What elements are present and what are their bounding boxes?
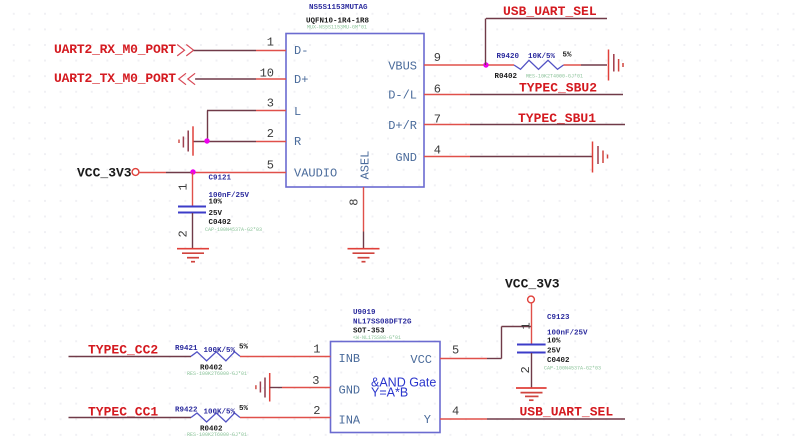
svg-text:25V: 25V [547, 348, 561, 356]
svg-text:3: 3 [312, 374, 319, 388]
wire TYPEC_CC2 to resistor [69, 356, 192, 358]
svg-text:5%: 5% [563, 52, 573, 60]
svg-text:5%: 5% [239, 405, 249, 413]
svg-text:Y=A*B: Y=A*B [371, 386, 408, 400]
svg-text:25V: 25V [209, 210, 223, 218]
junction dot USB_UART_SEL [483, 62, 488, 67]
svg-text:UART2_TX_M0_PORT: UART2_TX_M0_PORT [54, 71, 176, 86]
svg-text:C9123: C9123 [547, 314, 570, 322]
mux IC U1 body [286, 34, 424, 188]
svg-text:TYPEC_SBU1: TYPEC_SBU1 [518, 111, 596, 126]
svg-text:VCC_3V3: VCC_3V3 [505, 277, 560, 292]
svg-text:CAP-100N4537A-G2*03: CAP-100N4537A-G2*03 [544, 366, 601, 372]
off-page chevron << for UART2_TX [179, 73, 195, 84]
svg-text:INB: INB [339, 352, 361, 366]
svg-text:8: 8 [348, 199, 362, 206]
wire vertical to USB_UART_SEL [485, 19, 487, 66]
wire pin3 horizontal [207, 110, 256, 112]
junction dot at L/R ground node [204, 138, 209, 143]
svg-text:1: 1 [520, 322, 534, 329]
pin 4 stub [424, 156, 470, 158]
power symbol circle VCC_3V3 (bottom) [528, 296, 535, 303]
svg-text:4: 4 [434, 144, 441, 158]
svg-text:R9422: R9422 [175, 407, 198, 415]
pin 6 stub [424, 94, 470, 96]
svg-text:U9019: U9019 [353, 309, 376, 317]
junction dot at VCC/C9121 [190, 169, 195, 174]
resistor R9421 zigzag [191, 352, 240, 361]
AND gate IC U9019 body [331, 342, 441, 433]
svg-text:UART2_RX_M0_PORT: UART2_RX_M0_PORT [54, 42, 176, 57]
svg-text:100K/5%: 100K/5% [204, 347, 236, 355]
svg-text:3: 3 [267, 97, 274, 111]
svg-text:10K/5%: 10K/5% [528, 53, 556, 61]
wire TYPEC_SBU1 [470, 124, 625, 126]
svg-text:TYPEC_CC2: TYPEC_CC2 [88, 343, 158, 358]
resistor R9420 zigzag [514, 60, 564, 69]
svg-text:USB_UART_SEL: USB_UART_SEL [503, 4, 597, 19]
ASEL lead lower segment [363, 232, 365, 249]
wire TYPEC_CC1 to resistor [69, 417, 192, 419]
wire VCC to junction [139, 172, 166, 174]
svg-text:MUX-NS5S1153MU-GM*01: MUX-NS5S1153MU-GM*01 [307, 25, 367, 31]
wire VCC vertical [501, 327, 503, 359]
svg-text:RES-100K2T6000-GJ*01: RES-100K2T6000-GJ*01 [187, 371, 247, 377]
svg-text:2: 2 [267, 127, 274, 141]
svg-text:4: 4 [452, 405, 459, 419]
svg-text:R0402: R0402 [495, 73, 518, 81]
svg-text:VCC_3V3: VCC_3V3 [77, 166, 132, 181]
svg-text:USB_UART_SEL: USB_UART_SEL [520, 405, 614, 420]
ground symbol (right-facing) at U1 GND [593, 142, 608, 173]
ground symbol (left-facing) at U1 R pin [179, 126, 193, 155]
capacitor C9123 bottom lead [531, 353, 533, 388]
svg-text:CAP-100N4537A-G2*03: CAP-100N4537A-G2*03 [205, 227, 262, 233]
capacitor C9123 plates [517, 345, 546, 353]
capacitor C9121 plates [178, 207, 206, 213]
ground symbol below C9121 [177, 249, 209, 262]
ground symbol (left-facing) at U9019 GND [256, 373, 270, 402]
svg-text:1: 1 [177, 183, 191, 190]
svg-text:2: 2 [519, 366, 533, 373]
svg-text:6: 6 [434, 83, 441, 97]
capacitor C9121 bottom lead [192, 213, 194, 249]
svg-text:Y: Y [424, 413, 431, 427]
wire GND pin to ground [470, 156, 592, 158]
svg-text:100nF/25V: 100nF/25V [547, 330, 588, 338]
svg-text:10: 10 [260, 67, 274, 81]
ground symbol below ASEL [348, 249, 380, 262]
pin 5 stub [193, 172, 286, 174]
pin 5 stub (VCC) [440, 358, 487, 360]
svg-text:D+/R: D+/R [388, 119, 417, 133]
svg-text:RES-100K2T6000-GJ*01: RES-100K2T6000-GJ*01 [187, 432, 247, 438]
svg-text:D-: D- [294, 44, 308, 58]
ground symbol below C9123 [516, 388, 547, 400]
wire Y to USB_UART_SEL [487, 418, 625, 420]
svg-text:D+: D+ [294, 73, 308, 87]
svg-text:C0402: C0402 [547, 357, 570, 365]
ground symbol (right-facing) at R9420 [609, 50, 624, 81]
svg-text:TYPEC_SBU2: TYPEC_SBU2 [519, 81, 597, 96]
pin 7 stub [424, 124, 470, 126]
wire VCC to cap [502, 326, 532, 328]
svg-text:100K/5%: 100K/5% [204, 409, 236, 417]
svg-text:7: 7 [434, 113, 441, 127]
wire vertical L-to-R junction [207, 111, 209, 142]
resistor R9422 zigzag [191, 413, 240, 422]
svg-text:C0402: C0402 [209, 219, 232, 227]
wire USB_UART_SEL horizontal [486, 18, 607, 20]
svg-text:9: 9 [434, 51, 441, 65]
pin 3 stub (GND) [282, 387, 331, 389]
wire pin2 horizontal [193, 141, 256, 143]
off-page chevron >> for UART2_RX [177, 45, 193, 56]
svg-text:1: 1 [313, 343, 320, 357]
svg-text:2: 2 [177, 230, 191, 237]
svg-text:NL17SS08DFT2G: NL17SS08DFT2G [353, 319, 412, 327]
capacitor C9123 top lead [531, 303, 533, 344]
wire ground to GND pin [270, 387, 282, 389]
svg-text:NS5S1153MUTAG: NS5S1153MUTAG [309, 4, 368, 12]
svg-text:R: R [294, 135, 301, 149]
wire pin1 net segment [194, 50, 256, 52]
wire R9421 to stub [240, 356, 331, 358]
ASEL pin 8 lead [363, 187, 365, 232]
svg-text:5%: 5% [239, 344, 249, 352]
svg-text:R9421: R9421 [175, 345, 198, 353]
svg-text:RES-10K2T4000-GJ*01: RES-10K2T4000-GJ*01 [526, 74, 583, 80]
svg-text:GND: GND [339, 384, 361, 398]
power symbol circle VCC_3V3 [132, 169, 139, 176]
svg-text:VAUDIO: VAUDIO [294, 167, 337, 181]
pin 10 stub [256, 78, 286, 80]
svg-text:<W-NL17SS08-G*01: <W-NL17SS08-G*01 [353, 335, 401, 341]
wire R9422 to stub [240, 417, 331, 419]
capacitor C9121 top lead [192, 173, 194, 207]
wire VCC to corner [487, 358, 502, 360]
pin 4 stub (Y) [440, 418, 487, 420]
svg-text:5: 5 [452, 344, 459, 358]
svg-text:INA: INA [339, 414, 361, 428]
wire resistor to ground [564, 64, 582, 66]
wire junction to stub [166, 172, 193, 174]
wire pin10 net segment [195, 78, 256, 80]
svg-text:C9121: C9121 [209, 175, 232, 183]
pin 9 stub [424, 64, 514, 66]
svg-text:R9420: R9420 [497, 53, 520, 61]
pin 2 stub [256, 141, 286, 143]
svg-text:10%: 10% [209, 199, 223, 207]
svg-text:VBUS: VBUS [388, 60, 417, 74]
svg-text:GND: GND [395, 151, 417, 165]
pin 1 stub [256, 50, 286, 52]
svg-text:D-/L: D-/L [388, 89, 417, 103]
pin 3 stub [256, 110, 286, 112]
wire TYPEC_SBU2 [470, 94, 623, 96]
svg-text:ASEL: ASEL [359, 151, 373, 180]
svg-text:2: 2 [313, 404, 320, 418]
svg-text:1: 1 [267, 36, 274, 50]
svg-text:10%: 10% [547, 338, 561, 346]
svg-text:VCC: VCC [410, 353, 432, 367]
svg-text:L: L [294, 105, 301, 119]
svg-text:5: 5 [267, 159, 274, 173]
